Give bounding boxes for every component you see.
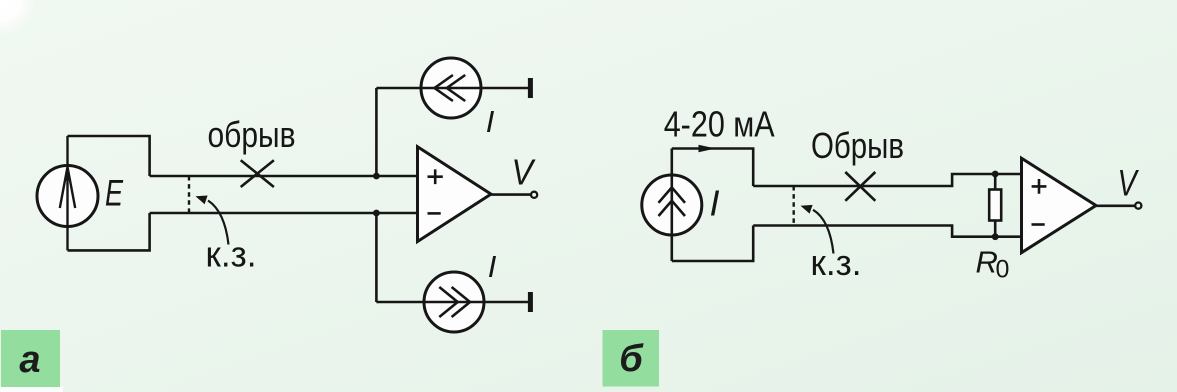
voltage source E1 circle: [37, 166, 98, 227]
svg-text:б: б: [619, 338, 644, 380]
output terminal circle b: [1135, 203, 1141, 209]
wire op-amp A1 output: [491, 193, 531, 196]
op-amp A1 plus input marker: [428, 169, 443, 184]
junction dot top: [373, 173, 380, 180]
break mark X obryv b: [845, 172, 875, 201]
op-amp A1 minus input marker: [428, 212, 441, 215]
wire bottom conductor: [150, 212, 418, 215]
wire through bottom current source: [376, 301, 530, 304]
op-amp A2: [1022, 158, 1097, 253]
scan white corner: [0, 0, 1, 1]
short-circuit dashed line k.z. b: [793, 186, 795, 226]
current source I1 arrows: [435, 75, 466, 101]
wire top conductor b: [753, 174, 1021, 186]
op-amp A2 minus input marker: [1032, 223, 1045, 226]
wire to bottom current source: [375, 213, 378, 302]
wire bottom conductor b: [753, 226, 1021, 237]
wire through top current source: [376, 87, 530, 90]
svg-text:к.з.: к.з.: [811, 242, 862, 283]
voltage source E1 arrow: [60, 136, 75, 250]
resistor R0 leads: [994, 174, 997, 237]
terminal bar top: [528, 78, 533, 98]
wire bottom of source loop: [68, 213, 150, 250]
short-circuit dashed line k.z.: [188, 176, 190, 213]
svg-text:4-20 мА: 4-20 мА: [664, 104, 775, 145]
current source I3 arrows: [659, 187, 686, 216]
svg-text:Обрыв: Обрыв: [811, 125, 904, 166]
break mark X obryv: [241, 160, 274, 187]
terminal bar bottom: [528, 292, 533, 312]
svg-text:0: 0: [996, 256, 1010, 284]
svg-text:а: а: [19, 339, 40, 381]
wire through current source I3: [670, 149, 673, 262]
op-amp A1: [418, 147, 492, 242]
op-amp A2 plus input marker: [1032, 179, 1047, 194]
resistor R0 body: [989, 190, 1001, 221]
svg-text:к.з.: к.з.: [206, 234, 257, 275]
wire bottom of source loop b: [672, 226, 753, 262]
wire op-amp A2 output: [1096, 205, 1135, 208]
k.z. pointer arrow b: [813, 210, 834, 254]
current source I1 circle: [421, 58, 481, 118]
junction dot bottom b: [992, 233, 999, 240]
label box b: [603, 330, 660, 387]
k.z. pointer arrow: [208, 201, 229, 245]
current source I2 arrows: [439, 287, 470, 317]
label box a: [1, 330, 60, 387]
output terminal circle a: [531, 192, 537, 198]
junction dot top b: [992, 171, 999, 178]
svg-text:V: V: [1118, 163, 1140, 204]
wire top conductor: [150, 175, 418, 178]
svg-text:V: V: [512, 153, 537, 193]
current source I2 circle: [424, 272, 484, 332]
svg-text:I: I: [709, 183, 719, 224]
svg-text:I: I: [486, 104, 495, 139]
svg-text:E: E: [105, 172, 123, 213]
junction dot bottom: [373, 210, 380, 217]
svg-text:обрыв: обрыв: [208, 114, 296, 155]
wire top of source loop: [68, 136, 150, 176]
current direction arrow: [699, 145, 716, 152]
current source I3 circle: [642, 175, 702, 235]
wire top of source loop b: [672, 149, 753, 187]
wire to top current source: [375, 88, 378, 176]
scan white strip bottom left: [0, 387, 63, 392]
svg-text:I: I: [488, 249, 497, 284]
